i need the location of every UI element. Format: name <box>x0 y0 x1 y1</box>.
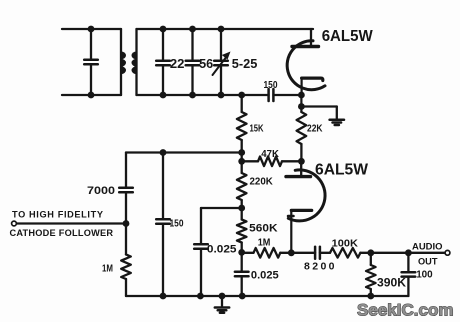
svg-text:47K: 47K <box>261 148 279 160</box>
svg-text:1M: 1M <box>102 264 113 275</box>
svg-text:15K: 15K <box>250 123 264 135</box>
svg-text:56: 56 <box>199 56 213 71</box>
svg-text:150: 150 <box>264 79 278 91</box>
svg-text:22: 22 <box>170 56 185 71</box>
svg-text:6AL5W: 6AL5W <box>315 162 369 179</box>
svg-text:0.025: 0.025 <box>251 270 279 282</box>
svg-text:1M: 1M <box>258 238 271 249</box>
svg-text:100: 100 <box>416 269 433 281</box>
svg-text:220K: 220K <box>250 176 274 188</box>
svg-text:5-25: 5-25 <box>232 56 258 71</box>
svg-text:100K: 100K <box>332 238 359 250</box>
svg-text:0.025: 0.025 <box>207 243 237 255</box>
svg-text:CATHODE FOLLOWER: CATHODE FOLLOWER <box>10 228 114 238</box>
svg-text:OUT: OUT <box>418 256 438 267</box>
svg-text:TO HIGH FIDELITY: TO HIGH FIDELITY <box>12 209 103 219</box>
svg-text:AUDIO: AUDIO <box>412 242 443 253</box>
svg-text:SeekIC.com: SeekIC.com <box>357 302 454 320</box>
svg-text:150: 150 <box>170 218 184 230</box>
svg-text:560K: 560K <box>249 223 277 235</box>
svg-text:22K: 22K <box>307 123 323 135</box>
svg-text:6AL5W: 6AL5W <box>322 28 374 45</box>
svg-text:390K: 390K <box>377 278 407 290</box>
svg-text:7000: 7000 <box>87 185 115 197</box>
